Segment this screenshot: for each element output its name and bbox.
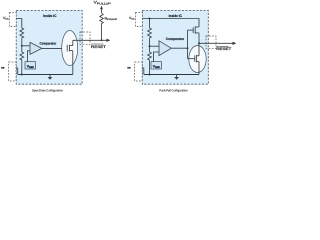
label VREF [27, 65, 34, 69]
wire VCC rail to PMOS source [142, 19, 199, 28]
node divider tap [21, 45, 23, 47]
reference box VREF [151, 62, 162, 69]
svg-text:VCC: VCC [3, 16, 9, 21]
wire RESET output [73, 39, 107, 41]
node divider-to-rail [149, 74, 151, 76]
svg-text:GND: GND [127, 67, 131, 70]
reference box VREF [25, 62, 36, 69]
resistor RPULLUP [100, 13, 104, 25]
svg-text:Comparator: Comparator [40, 42, 57, 46]
pin VCC (dashed pin box) [135, 13, 142, 27]
svg-text:Open Drain Configuration: Open Drain Configuration [32, 88, 63, 92]
wire NMOS drain up to output node [198, 43, 200, 56]
resistor R2 (lower divider) [20, 46, 24, 61]
supply V_PULLUP arrow [100, 6, 103, 13]
wire R1 to node [21, 40, 23, 46]
wire VREF to comparator - input [154, 52, 160, 62]
node gate rail junction [187, 47, 189, 49]
wire ground rail [144, 74, 199, 76]
wire ground rail [18, 74, 73, 76]
svg-text:Comparator: Comparator [166, 37, 185, 41]
transistor Q1 NMOS open-drain [67, 45, 73, 52]
resistor R1 (upper divider) [148, 28, 152, 40]
op-amp comparator U1 [30, 42, 42, 54]
svg-text:Inside IC: Inside IC [43, 14, 57, 18]
pin GND (dashed pin box) [9, 62, 17, 81]
wire drain up to RESET line [72, 40, 74, 45]
wire GND pin to rail [142, 68, 144, 75]
pin GND (dashed pin box) [135, 62, 143, 81]
arrowhead RESET [233, 42, 237, 45]
wire RPULLUP to RESET node [101, 25, 103, 40]
node divider-to-rail [21, 74, 23, 76]
wire branch down [149, 19, 151, 29]
ground symbol [48, 75, 53, 80]
wire R2 to ground rail [21, 61, 23, 75]
IC boundary box (Inside IC) [16, 10, 82, 84]
label RESET (active low) [216, 46, 232, 51]
transistor Q2 PMOS (pull-up) [188, 26, 200, 33]
svg-text:VPULLUP: VPULLUP [94, 1, 112, 6]
transistor Q3 NMOS (pull-down) [188, 55, 200, 63]
wire gate rail [187, 30, 189, 59]
node RESET pull-up junction [101, 39, 103, 41]
wire node to comparator + input [150, 45, 160, 47]
op-amp comparator U2 [159, 41, 171, 56]
svg-text:GND: GND [1, 67, 5, 70]
wire RESET output [199, 42, 233, 44]
svg-text:RPULLUP: RPULLUP [105, 16, 118, 21]
resistor R2 (lower divider) [148, 46, 152, 61]
svg-text:RESET: RESET [216, 47, 232, 51]
pin VCC (dashed pin box) [9, 13, 16, 27]
resistor R1 (upper divider) [20, 28, 24, 40]
wire PMOS drain to output node [198, 33, 200, 43]
wire node to comparator + input [22, 45, 30, 47]
transistor circle (output devices) [189, 46, 206, 73]
wire VCC pin to divider [16, 19, 22, 29]
wire source down to ground rail [72, 51, 74, 75]
svg-text:VCC: VCC [129, 16, 135, 21]
node output [198, 42, 200, 44]
wire comparator output to gate [42, 47, 67, 49]
svg-text:RESET: RESET [91, 45, 107, 49]
svg-text:Push-Pull Configuration: Push-Pull Configuration [159, 88, 187, 92]
ground symbol [174, 75, 179, 80]
wire NMOS source down to rail [198, 62, 200, 75]
label VREF [153, 65, 160, 69]
pin RESET (dashed pin box) [206, 36, 216, 48]
arrowhead RESET [107, 39, 111, 42]
pin RESET (dashed pin box) [80, 32, 90, 44]
svg-text:Inside IC: Inside IC [169, 14, 183, 18]
wire R1 to node [149, 40, 151, 47]
wire comparator output to gate rail [171, 47, 187, 49]
label RESET (active low) [91, 44, 107, 49]
wire VREF to comparator - input [28, 51, 31, 62]
wire R2 to rail [149, 61, 151, 75]
transistor circle (output device) [62, 31, 78, 66]
node divider tap [149, 45, 151, 47]
node VCC divider branch [149, 18, 151, 20]
IC boundary box (Inside IC) [142, 10, 208, 84]
wire GND pin to rail [16, 68, 18, 75]
